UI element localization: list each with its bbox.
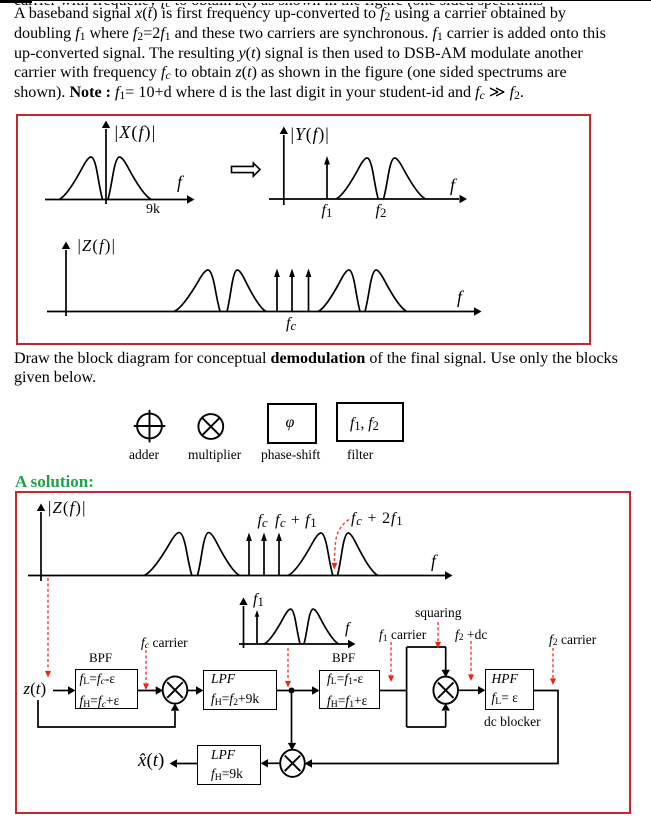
red dashed arrow f2 carrier [550, 648, 556, 685]
Z(f) vertical axis [62, 242, 70, 317]
wire LPF2 to xhat [170, 759, 198, 767]
multiplier M1 [163, 676, 188, 703]
big hollow arrow [232, 163, 261, 176]
phase-shift block symbol [267, 403, 317, 444]
Z(f) lobe 4 [365, 270, 407, 311]
Z(f) lobe 3 [318, 270, 360, 311]
label fc carrier [141, 635, 188, 651]
solution red border box [15, 491, 631, 815]
solution impulse third [276, 533, 282, 576]
problem statement paragraph [14, 4, 606, 103]
solution Z(f) horizontal axis [28, 571, 453, 579]
LPF U5 block [197, 745, 261, 785]
wire z(t) to BPF1 [53, 686, 76, 694]
top rule [0, 0, 651, 1]
label f axis Z plot [457, 287, 462, 308]
red dashed arrow squaring [435, 622, 441, 649]
red dashed arrow fc carrier [143, 650, 149, 690]
wire junction down to M3 [288, 691, 296, 751]
question text [14, 349, 618, 387]
phi label [286, 414, 295, 432]
label f axis X plot [177, 172, 182, 193]
HPF U4 block [485, 669, 534, 710]
solution impulse fc [246, 533, 252, 576]
Y(f) vertical axis [280, 127, 288, 206]
Y(f) upper sideband lobe [384, 158, 426, 199]
top-left black bar [0, 0, 32, 3]
solution impulse fc+f1 [261, 533, 267, 576]
Y(f) impulse at f1 [324, 156, 330, 199]
solution Z(f) lobe 2 [198, 533, 240, 576]
wire M2 to HPF [458, 686, 486, 694]
red dashed arrow f1 carrier [388, 642, 394, 682]
label f axis solution Z [431, 551, 436, 572]
junction node [289, 688, 295, 694]
label filter [347, 447, 373, 463]
red dashed arrow f2+dc [468, 641, 474, 681]
label adder [129, 447, 159, 463]
z(t) input label [24, 679, 47, 699]
wire HPF to M3 around right [305, 691, 559, 768]
label squaring [415, 605, 462, 621]
label |Z(f)| figure1 [78, 236, 117, 256]
squaring loop left vertical [406, 647, 408, 727]
wire M1 to LPF1 [187, 686, 203, 694]
small spectrum lobe 1 [264, 609, 300, 644]
squaring loop top branch [407, 647, 450, 677]
Z(f) lobe 2 [227, 270, 266, 311]
solution Z(f) lobe 3 [288, 533, 333, 576]
A solution: heading [15, 472, 94, 492]
X(f) vertical axis [102, 121, 110, 205]
adder symbol [134, 410, 166, 443]
Z(f) impulse right [306, 269, 312, 312]
label f1 small spectrum [253, 591, 264, 609]
wire BPF1 to M1 [138, 686, 163, 694]
Z(f) lobe 1 [174, 270, 220, 311]
X(f) horizontal axis [45, 195, 195, 203]
wire BPF2 to squaring loop [380, 690, 407, 692]
filter f1,f2 label [350, 415, 379, 433]
small spectrum lobe 2 [304, 609, 339, 644]
label f2 carrier [549, 632, 596, 648]
squaring loop bottom branch [407, 703, 450, 727]
multiplier M2 [433, 677, 458, 704]
solution Z(f) lobe 1 [144, 533, 192, 576]
label f1 under Y plot [322, 202, 333, 220]
BPF U3 block [319, 670, 380, 709]
solution Z(f) lobe 4 [338, 533, 378, 576]
small spectrum vertical axis [239, 598, 247, 649]
Z(f) impulse center fc [289, 269, 295, 312]
figure 1 red border box [16, 114, 591, 345]
multiplier M3 [280, 750, 305, 777]
label dc blocker [484, 714, 541, 730]
red dashed arrow from spectrum to z(t) [45, 578, 51, 678]
LPF U2 block [203, 670, 277, 710]
label f axis small spectrum [345, 620, 349, 638]
top cropped text remnant [14, 0, 651, 10]
label phase-shift [261, 447, 320, 463]
Z(f) horizontal axis [47, 307, 482, 315]
label f2 +dc [455, 627, 487, 643]
small spectrum impulse f1 [255, 610, 260, 644]
label f2 under Y plot [376, 202, 387, 220]
Y(f) lower sideband lobe [336, 158, 378, 199]
multiplier symbol [198, 414, 223, 439]
wire LPF1 to BPF2 [277, 686, 320, 694]
label BPF block3 [332, 650, 355, 666]
label 9k [146, 202, 160, 218]
solution Z(f) vertical axis [37, 504, 45, 582]
red dashed arrow small spectrum to junction [285, 648, 291, 688]
label |Z(f)| solution [48, 498, 87, 518]
label fc under Z plot [286, 315, 296, 333]
wire M3 to LPF2 [261, 759, 281, 767]
label fc above impulses [258, 512, 268, 530]
BPF U1 block [75, 669, 138, 709]
label |X(f)| [115, 122, 157, 143]
label f1 carrier [379, 627, 426, 643]
label f axis Y plot [450, 175, 455, 196]
xhat(t) output label [138, 750, 164, 772]
red dashed pointer to fc+2f1 dip [331, 520, 349, 570]
wire z(t) feedback to M1 bottom [38, 700, 179, 727]
label fc+2f1 [351, 510, 403, 528]
label |Y(f)| [291, 124, 330, 145]
X(f) left lobe [59, 157, 103, 200]
label multiplier [188, 447, 241, 463]
label BPF block1 [89, 650, 112, 666]
top white cover [0, 0, 651, 3]
label fc+f1 [275, 512, 317, 530]
Z(f) impulse left [274, 269, 280, 312]
filter block symbol [336, 402, 404, 443]
Y(f) horizontal axis [269, 195, 467, 203]
X(f) right lobe [108, 157, 152, 200]
small spectrum horizontal axis [239, 640, 356, 648]
